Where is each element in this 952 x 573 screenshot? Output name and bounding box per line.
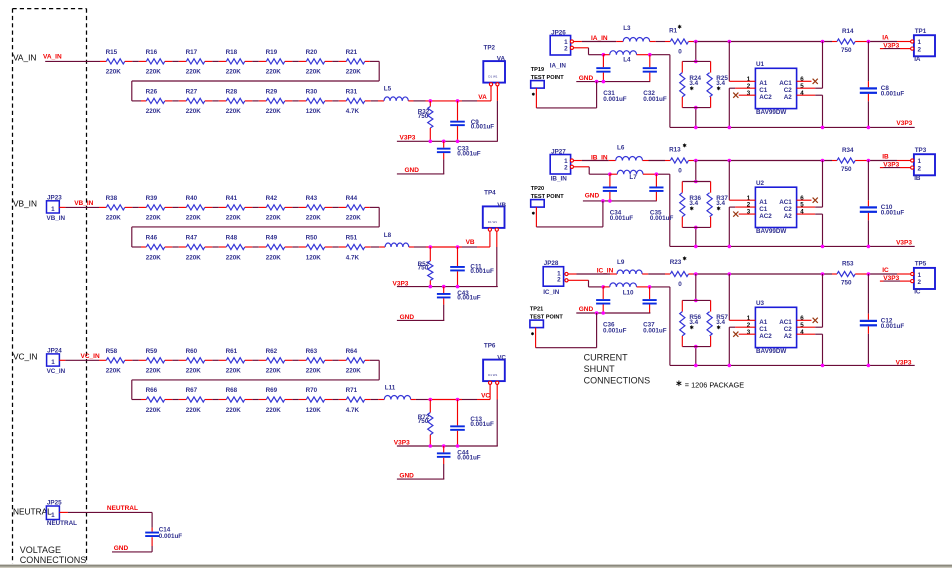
svg-text:220K: 220K [346, 368, 362, 375]
wire node VC [411, 384, 490, 399]
junction [608, 199, 612, 203]
svg-text:IC: IC [914, 288, 921, 295]
svg-text:GND: GND [399, 473, 414, 480]
junction [694, 299, 698, 303]
svg-text:0.001uF: 0.001uF [457, 294, 481, 301]
junction [602, 80, 606, 84]
wire to test point [855, 273, 912, 275]
wire [205, 206, 227, 208]
connector JP24 [47, 347, 66, 375]
junction [821, 159, 825, 163]
wire TP pin2 to V3P3 [496, 231, 498, 287]
svg-text:R68: R68 [226, 387, 238, 394]
svg-text:R71: R71 [346, 387, 358, 394]
connector JP26 [550, 29, 574, 69]
wire [325, 246, 347, 248]
wire [165, 60, 187, 62]
resistor R72 750 [418, 400, 433, 447]
inductor L7 [610, 170, 643, 181]
junction [429, 140, 433, 144]
svg-text:0.001uF: 0.001uF [457, 150, 481, 157]
net label V3P3 [883, 161, 899, 168]
wire to shunt resistors [695, 274, 697, 365]
wire pin2 to lower inductor [568, 280, 603, 287]
resistor R62 [266, 348, 285, 375]
svg-text:R1: R1 [669, 28, 678, 35]
ground GND rail [576, 306, 650, 313]
inductor L10 [603, 283, 636, 297]
svg-text:C1: C1 [759, 206, 768, 213]
svg-text:120K: 120K [306, 254, 322, 261]
svg-text:0.001uF: 0.001uF [881, 323, 905, 330]
capacitor C10 0.001uF [860, 161, 905, 247]
junction [694, 126, 698, 130]
resistor R61 [226, 348, 245, 375]
junction [694, 106, 698, 110]
svg-text:750: 750 [418, 418, 429, 425]
window status bar [0, 565, 952, 568]
svg-text:IB_IN: IB_IN [551, 176, 568, 183]
junction [429, 285, 433, 289]
svg-text:220K: 220K [146, 254, 162, 261]
wire NEUTRAL to C14 [59, 512, 152, 531]
svg-text:R44: R44 [346, 195, 358, 202]
junction [728, 40, 732, 44]
svg-text:220K: 220K [186, 69, 202, 76]
wire [285, 206, 307, 208]
svg-text:2: 2 [564, 164, 568, 171]
svg-text:220K: 220K [306, 69, 322, 76]
svg-text:L11: L11 [385, 385, 396, 392]
junction [648, 53, 652, 57]
resistor R1 0 [669, 25, 688, 56]
svg-text:CONNECTIONS: CONNECTIONS [20, 555, 87, 565]
svg-text:R47: R47 [186, 235, 198, 242]
svg-text:R18: R18 [226, 49, 238, 56]
svg-text:C2: C2 [784, 87, 793, 94]
net label IA [882, 34, 889, 41]
svg-text:IB: IB [914, 175, 921, 182]
junction [655, 172, 659, 176]
svg-text:1: 1 [918, 39, 922, 46]
junction [867, 126, 871, 130]
resistor R20 [306, 49, 325, 76]
svg-text:3.4: 3.4 [689, 200, 698, 207]
resistor R58 [106, 348, 125, 375]
svg-text:750: 750 [841, 166, 852, 173]
wire [325, 399, 347, 401]
svg-text:220K: 220K [146, 407, 162, 414]
net label IC [882, 267, 889, 274]
svg-text:L5: L5 [384, 86, 392, 93]
svg-text:2: 2 [918, 279, 922, 286]
resistor R42 [266, 195, 285, 222]
svg-text:R69: R69 [266, 387, 278, 394]
svg-text:R29: R29 [266, 89, 278, 96]
wire [125, 359, 147, 361]
wire TP pin2 to V3P3 [496, 384, 498, 446]
svg-text:0.001uF: 0.001uF [610, 215, 634, 222]
junction [608, 172, 612, 176]
no-connect pin 6 [797, 198, 818, 203]
svg-text:VB: VB [497, 202, 506, 209]
svg-text:R34: R34 [842, 147, 854, 154]
resistor R26 [146, 89, 165, 116]
wire pin 2 feed [729, 207, 755, 246]
svg-text:R23: R23 [670, 259, 682, 266]
test point TP2 [483, 45, 505, 86]
svg-text:VC_IN: VC_IN [13, 351, 37, 361]
junction [821, 40, 825, 44]
svg-text:3.4: 3.4 [716, 80, 725, 87]
test point TP19 [531, 67, 565, 96]
resistor R16 [146, 49, 165, 76]
resistor R21 [346, 49, 365, 76]
svg-text:R41: R41 [226, 195, 238, 202]
wire main rail [689, 160, 838, 162]
svg-text:R15: R15 [106, 49, 118, 56]
wire pin 1 feed [729, 274, 755, 320]
svg-text:0: 0 [678, 167, 682, 174]
svg-text:VOLTAGE: VOLTAGE [20, 545, 61, 555]
port VB_IN [13, 199, 37, 209]
svg-text:R66: R66 [146, 387, 158, 394]
svg-text:TP20: TP20 [531, 186, 544, 192]
svg-text:R17: R17 [186, 49, 198, 56]
junction [429, 398, 433, 402]
svg-text:VA: VA [478, 94, 487, 101]
junction [867, 364, 871, 368]
junction [694, 226, 698, 230]
title CURRENT SHUNT CONNECTIONS [584, 353, 651, 386]
svg-text:0.001uF: 0.001uF [159, 533, 183, 540]
resistor R46 [146, 235, 165, 262]
svg-text:R62: R62 [266, 348, 278, 355]
svg-text:C2: C2 [784, 326, 793, 333]
svg-text:220K: 220K [266, 407, 282, 414]
wire [165, 246, 187, 248]
wire pin2 stub V3P3 [880, 167, 911, 169]
svg-text:AC2: AC2 [759, 333, 772, 340]
net label VB [466, 239, 475, 246]
svg-text:220K: 220K [186, 215, 202, 222]
svg-text:220K: 220K [226, 254, 242, 261]
svg-text:L10: L10 [623, 289, 634, 296]
svg-text:R51: R51 [346, 235, 358, 242]
resistor R50 [306, 235, 325, 262]
resistor R60 [186, 348, 205, 375]
resistor R68 [226, 387, 245, 414]
net label VA_IN [43, 54, 62, 61]
wire pin 4 to bottom rail [797, 95, 823, 127]
svg-text:VC: VC [497, 355, 506, 362]
svg-text:750: 750 [418, 265, 429, 272]
junction [694, 364, 698, 368]
svg-text:TP3: TP3 [915, 147, 927, 154]
svg-text:U3: U3 [756, 300, 765, 307]
wire pin 5 to rail [797, 42, 823, 89]
svg-text:0.001uF: 0.001uF [470, 268, 494, 275]
svg-text:V3P3: V3P3 [400, 135, 416, 142]
resistor R29 [266, 89, 285, 116]
junction [429, 99, 433, 103]
svg-text:GND: GND [114, 545, 129, 552]
capacitor C35 0.001uF [649, 174, 673, 222]
junction [429, 245, 433, 249]
resistor R64 [346, 348, 365, 375]
resistor R53 750 [837, 261, 855, 287]
svg-text:L4: L4 [623, 57, 631, 64]
inductor L6 [616, 145, 643, 161]
wire [285, 60, 307, 62]
svg-text:1: 1 [51, 359, 55, 366]
svg-text:R53: R53 [842, 261, 854, 268]
svg-text:0: 0 [678, 281, 682, 288]
svg-text:= 1206 PACKAGE: = 1206 PACKAGE [685, 380, 744, 389]
ground GND [397, 473, 444, 480]
svg-text:VC_IN: VC_IN [81, 353, 100, 360]
resistor R52 750 [418, 247, 433, 287]
svg-text:220K: 220K [266, 69, 282, 76]
svg-text:220K: 220K [106, 69, 122, 76]
net V3P3 rail [393, 281, 498, 288]
wire pin1 to inductor [574, 160, 616, 162]
wire [245, 100, 266, 102]
svg-text:VA_IN: VA_IN [43, 54, 62, 61]
svg-text:R70: R70 [306, 387, 318, 394]
wire [325, 60, 347, 62]
wire [643, 160, 671, 162]
wire TP pin2 to V3P3 [496, 86, 498, 142]
inductor L5 [384, 86, 409, 101]
svg-text:220K: 220K [106, 215, 122, 222]
wire [325, 359, 347, 361]
svg-text:JP25: JP25 [47, 499, 62, 506]
svg-text:3.4: 3.4 [716, 200, 725, 207]
test point connector TP1 [911, 28, 935, 63]
wire U-turn row1 to row2 [132, 207, 379, 247]
svg-text:4.7K: 4.7K [346, 108, 360, 115]
wire pin 1 feed [729, 161, 755, 201]
svg-text:VB_IN: VB_IN [13, 199, 37, 209]
svg-text:220K: 220K [226, 215, 242, 222]
test point TP6 [483, 343, 506, 385]
resistor R63 [306, 348, 325, 375]
capacitor C14 0.001uF [145, 527, 182, 540]
test point TP4 [483, 190, 507, 232]
svg-text:120K: 120K [306, 407, 322, 414]
connector JP25 [46, 499, 77, 526]
svg-text:R20: R20 [306, 49, 318, 56]
svg-text:NEUTRAL: NEUTRAL [107, 505, 138, 512]
svg-text:C1: C1 [759, 87, 768, 94]
svg-text:R50: R50 [306, 235, 318, 242]
wire main rail [689, 273, 838, 275]
junction [456, 444, 460, 448]
ground GND [112, 545, 152, 552]
wire [205, 399, 227, 401]
wire pin2 stub V3P3 [880, 280, 911, 282]
svg-text:A2: A2 [784, 213, 793, 220]
svg-text:GND: GND [579, 75, 594, 82]
net V3P3 rail [394, 439, 498, 446]
resistor R44 [346, 195, 365, 222]
junction [728, 272, 732, 276]
svg-text:R31: R31 [346, 89, 358, 96]
wire node VA [408, 86, 491, 101]
wire pin 1 feed [729, 42, 755, 82]
wire [285, 359, 307, 361]
svg-text:R19: R19 [266, 49, 278, 56]
capacitor C44 0.001uF [437, 446, 481, 479]
resistor R36 3.4 [680, 182, 711, 228]
wire input to first resistor [59, 206, 106, 208]
diode array U2 BAV99DW [747, 180, 805, 235]
svg-text:TP21: TP21 [530, 306, 543, 312]
wire [637, 55, 670, 128]
resistor R37 3.4 [707, 182, 728, 228]
wire [245, 399, 266, 401]
net label IC_IN [597, 268, 614, 275]
svg-text:0.001uF: 0.001uF [471, 124, 495, 131]
svg-text:D1 W1: D1 W1 [488, 75, 498, 79]
wire pin 5 to rail [797, 161, 823, 208]
svg-text:TEST POINT: TEST POINT [530, 315, 564, 321]
junction [728, 126, 732, 130]
resistor R40 [186, 195, 205, 222]
svg-text:V3P3: V3P3 [896, 359, 912, 366]
junction [867, 40, 871, 44]
capacitor C36 0.001uF [596, 287, 627, 334]
ground GND rail [583, 193, 657, 201]
svg-text:220K: 220K [346, 69, 362, 76]
wire to shunt resistors [695, 161, 697, 247]
svg-text:750: 750 [841, 47, 852, 54]
resistor R70 [306, 387, 325, 414]
svg-text:2: 2 [557, 277, 561, 284]
capacitor C34 0.001uF [603, 174, 634, 222]
svg-text:D1 W1: D1 W1 [488, 220, 498, 224]
svg-text:BAV99DW: BAV99DW [756, 348, 786, 355]
svg-text:3.4: 3.4 [689, 80, 698, 87]
net label NEUTRAL [107, 505, 138, 512]
svg-text:220K: 220K [146, 69, 162, 76]
svg-text:TEST POINT: TEST POINT [531, 75, 565, 81]
svg-text:750: 750 [841, 280, 852, 287]
svg-text:R59: R59 [146, 348, 158, 355]
wire test point to GND [536, 201, 603, 227]
svg-text:3.4: 3.4 [689, 319, 698, 326]
junction [442, 444, 446, 448]
wire main rail [689, 41, 838, 43]
svg-text:L9: L9 [617, 259, 625, 266]
wire [365, 100, 384, 102]
wire pin2 stub V3P3 [880, 48, 911, 50]
svg-text:TP5: TP5 [915, 260, 927, 267]
svg-text:GND: GND [579, 306, 594, 313]
junction [694, 40, 698, 44]
no-connect pin 3 [733, 332, 755, 337]
resistor R41 [226, 195, 245, 222]
svg-text:CURRENT: CURRENT [584, 353, 629, 363]
svg-text:JP26: JP26 [551, 29, 566, 36]
inductor L4 [603, 51, 636, 64]
capacitor C31 0.001uF [596, 55, 627, 103]
wire [125, 60, 147, 62]
resistor R39 [146, 195, 165, 222]
junction [728, 364, 732, 368]
junction [456, 285, 460, 289]
wire [643, 174, 670, 246]
svg-text:220K: 220K [266, 215, 282, 222]
svg-text:JP27: JP27 [551, 148, 566, 155]
wire [165, 399, 187, 401]
svg-text:AC2: AC2 [759, 213, 772, 220]
ground GND rail [576, 75, 650, 82]
resistor R49 [266, 235, 285, 262]
capacitor C9 0.001uF [450, 101, 494, 141]
svg-text:D1 W1: D1 W1 [488, 373, 498, 377]
svg-text:220K: 220K [266, 254, 282, 261]
junction [867, 245, 871, 249]
svg-text:R38: R38 [106, 195, 118, 202]
svg-text:A2: A2 [784, 333, 793, 340]
svg-text:220K: 220K [346, 215, 362, 222]
wire [285, 246, 307, 248]
svg-text:JP28: JP28 [544, 260, 559, 267]
wire [365, 399, 385, 401]
junction [456, 398, 460, 402]
junction [821, 272, 825, 276]
svg-text:3.4: 3.4 [716, 319, 725, 326]
junction [821, 364, 825, 368]
capacitor C12 0.001uF [860, 274, 905, 365]
junction [456, 140, 460, 144]
svg-text:0: 0 [678, 48, 682, 55]
svg-text:1: 1 [51, 206, 55, 213]
wire [285, 399, 307, 401]
inductor L3 [623, 25, 649, 42]
no-connect pin 3 [733, 93, 755, 98]
svg-text:220K: 220K [226, 108, 242, 115]
wire [245, 206, 266, 208]
resistor R43 [306, 195, 325, 222]
svg-text:L7: L7 [629, 174, 637, 181]
wire to test point [855, 41, 912, 43]
junction [728, 245, 732, 249]
wire test point to GND [536, 313, 597, 348]
net label VC [481, 393, 490, 400]
junction [601, 199, 605, 203]
diode array U1 BAV99DW [747, 61, 805, 116]
inductor L11 [384, 385, 410, 400]
junction [694, 159, 698, 163]
wire [205, 359, 227, 361]
resistor R17 [186, 49, 205, 76]
junction [694, 272, 698, 276]
wire [325, 100, 347, 102]
svg-text:220K: 220K [186, 108, 202, 115]
junction [694, 245, 698, 249]
svg-text:TP19: TP19 [531, 67, 544, 73]
svg-text:0.001uF: 0.001uF [643, 96, 667, 103]
svg-text:TP4: TP4 [484, 190, 496, 197]
junction [867, 272, 871, 276]
svg-text:R43: R43 [306, 195, 318, 202]
svg-text:4.7K: 4.7K [346, 407, 360, 414]
wire pin1 to inductor [568, 273, 617, 275]
svg-text:R27: R27 [186, 89, 198, 96]
